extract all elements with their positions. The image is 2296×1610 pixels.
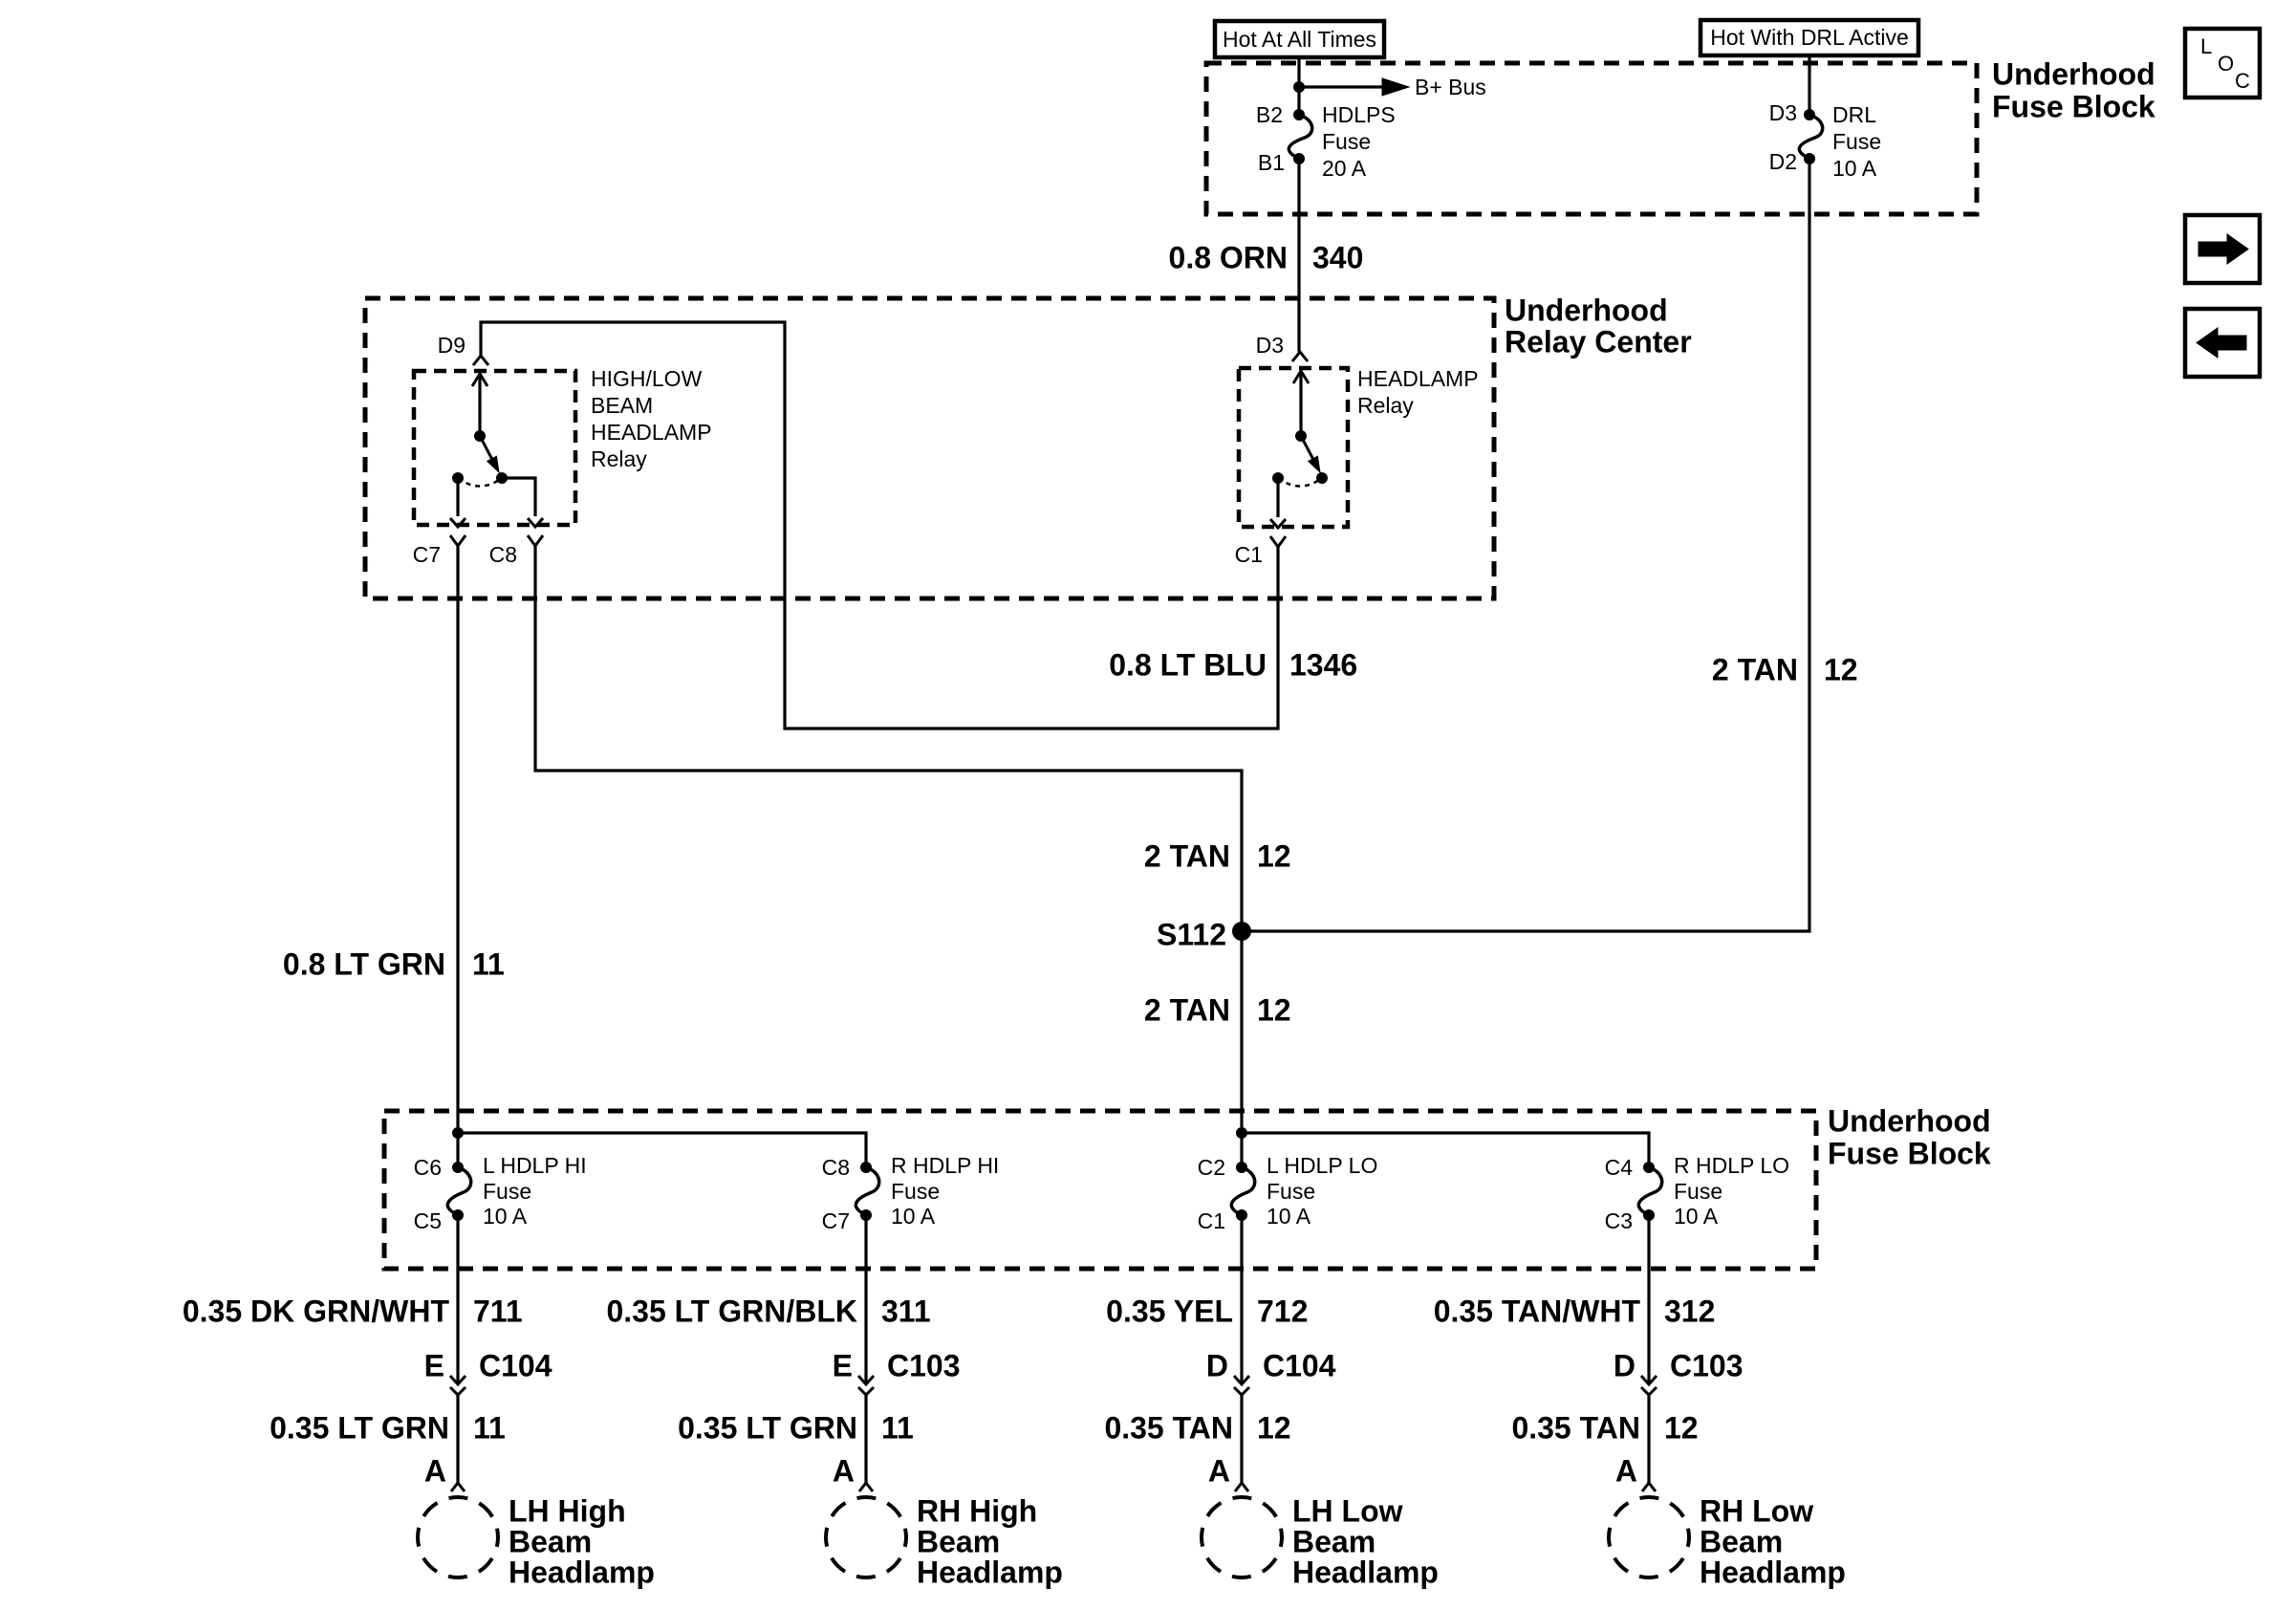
svg-text:Relay: Relay xyxy=(1357,393,1414,418)
svg-text:L: L xyxy=(2200,34,2212,58)
fuse DRL 10A xyxy=(1799,115,1822,159)
wire: C7 down to fuse block xyxy=(456,546,459,1167)
relay K1 coil arrow xyxy=(478,375,481,436)
svg-text:0.8 ORN: 0.8 ORN xyxy=(1169,240,1288,274)
svg-text:0.35 DK GRN/WHT: 0.35 DK GRN/WHT xyxy=(183,1294,450,1328)
svg-text:D3: D3 xyxy=(1769,100,1797,125)
svg-text:HDLPS: HDLPS xyxy=(1322,102,1396,127)
svg-text:312: 312 xyxy=(1664,1294,1715,1328)
svg-text:C1: C1 xyxy=(1198,1208,1225,1233)
svg-text:11: 11 xyxy=(473,1410,506,1445)
svg-text:10 A: 10 A xyxy=(1674,1204,1719,1229)
svg-text:A: A xyxy=(833,1453,855,1488)
connector fork at D9 xyxy=(473,356,488,365)
power label: Hot At All Times xyxy=(1215,21,1384,57)
lamp LH High Beam Headlamp (dashed circle) xyxy=(418,1497,498,1577)
svg-text:C7: C7 xyxy=(413,542,441,567)
svg-text:D9: D9 xyxy=(438,333,466,358)
svg-text:C5: C5 xyxy=(414,1208,442,1233)
svg-text:Hot With DRL Active: Hot With DRL Active xyxy=(1710,25,1908,50)
svg-text:0.35 TAN: 0.35 TAN xyxy=(1104,1410,1233,1445)
fuse L HDLP LO 10A xyxy=(1231,1167,1254,1215)
svg-text:D3: D3 xyxy=(1256,333,1284,358)
svg-text:Relay Center: Relay Center xyxy=(1505,324,1692,359)
svg-text:311: 311 xyxy=(881,1294,931,1328)
svg-text:L HDLP LO: L HDLP LO xyxy=(1267,1153,1377,1178)
splice S112 xyxy=(1232,922,1251,941)
svg-text:Relay: Relay xyxy=(591,446,647,471)
relay K1 movable arm xyxy=(480,436,492,459)
wire: rail to R HDLP LO fuse xyxy=(1242,1133,1649,1167)
connector fork at LH High headlamp xyxy=(451,1483,465,1491)
relay K2 common contact xyxy=(1316,472,1328,484)
svg-text:B1: B1 xyxy=(1258,150,1285,175)
relay K1 NC contact xyxy=(452,472,464,484)
svg-text:D: D xyxy=(1206,1348,1228,1382)
wire: 0.35 TAN/WHT circuit 312 down to connector xyxy=(1647,1215,1650,1384)
svg-text:Fuse: Fuse xyxy=(1322,129,1371,154)
svg-text:Beam: Beam xyxy=(1700,1524,1783,1558)
wire: 0.35 YEL circuit 712 down to connector xyxy=(1240,1215,1243,1384)
wire: S112 down to fuse block xyxy=(1240,931,1243,1167)
svg-text:711: 711 xyxy=(473,1294,523,1328)
svg-text:L HDLP HI: L HDLP HI xyxy=(483,1153,587,1178)
connector fork at LH Low headlamp xyxy=(1235,1483,1248,1491)
wire: relay feed rail from headlamp relay C1 to high/low relay D9 xyxy=(481,322,1278,729)
relay K1 contact throw arc xyxy=(458,478,502,487)
svg-text:0.8 LT BLU: 0.8 LT BLU xyxy=(1109,647,1267,682)
svg-text:10 A: 10 A xyxy=(1832,156,1877,181)
wire: K1 common to C8 xyxy=(502,478,535,516)
svg-text:2 TAN: 2 TAN xyxy=(1712,652,1798,686)
svg-text:R HDLP HI: R HDLP HI xyxy=(891,1153,999,1178)
wire: rail to R HDLP HI fuse xyxy=(458,1133,866,1167)
relay K2 NC contact xyxy=(1272,472,1284,484)
svg-text:S112: S112 xyxy=(1157,917,1226,951)
svg-text:LH Low: LH Low xyxy=(1292,1493,1403,1528)
svg-text:Fuse: Fuse xyxy=(1267,1179,1315,1204)
fuse R HDLP HI 10A xyxy=(856,1167,878,1215)
svg-text:Underhood: Underhood xyxy=(1505,293,1668,327)
svg-text:C3: C3 xyxy=(1605,1208,1633,1233)
wire: below connector C103 xyxy=(864,1395,867,1483)
svg-text:340: 340 xyxy=(1312,240,1363,274)
svg-text:Fuse: Fuse xyxy=(1832,129,1881,154)
Underhood Relay Center dashed box xyxy=(365,298,1494,598)
box: arrow left legend xyxy=(2185,309,2260,377)
svg-text:E: E xyxy=(833,1348,853,1382)
svg-text:12: 12 xyxy=(1824,652,1858,686)
svg-text:0.35 LT GRN/BLK: 0.35 LT GRN/BLK xyxy=(606,1294,857,1328)
wire: below connector C104 xyxy=(1240,1395,1243,1483)
wire: K1 NC to C7 xyxy=(456,478,459,516)
wire: 0.35 DK GRN/WHT circuit 711 down to connector xyxy=(456,1215,459,1384)
svg-text:Headlamp: Headlamp xyxy=(509,1555,655,1589)
svg-text:C2: C2 xyxy=(1198,1155,1225,1180)
power label: Hot With DRL Active xyxy=(1700,20,1918,55)
connector fork at relay D3 xyxy=(1292,352,1308,361)
Underhood Fuse Block (upper) dashed box xyxy=(1206,63,1977,214)
svg-text:BEAM: BEAM xyxy=(591,393,653,418)
svg-text:C: C xyxy=(2235,69,2250,93)
svg-text:Beam: Beam xyxy=(1292,1524,1375,1558)
svg-text:12: 12 xyxy=(1257,992,1291,1027)
relay K1 pivot xyxy=(474,430,486,442)
lamp RH Low Beam Headlamp (dashed circle) xyxy=(1609,1497,1689,1577)
svg-text:2 TAN: 2 TAN xyxy=(1144,838,1230,873)
svg-text:C4: C4 xyxy=(1605,1155,1634,1180)
connector fork at RH Low headlamp xyxy=(1642,1483,1656,1491)
node: B+ Bus tap junction xyxy=(1293,81,1305,93)
svg-text:A: A xyxy=(1615,1453,1637,1488)
svg-text:D2: D2 xyxy=(1769,149,1797,174)
svg-text:712: 712 xyxy=(1257,1294,1308,1328)
svg-text:20 A: 20 A xyxy=(1322,156,1367,181)
wire: 0.8 ORN 340 from B1 to headlamp relay D3 xyxy=(1297,159,1300,352)
svg-text:R HDLP LO: R HDLP LO xyxy=(1674,1153,1789,1178)
fuse R HDLP LO 10A xyxy=(1638,1167,1661,1215)
svg-text:0.35 TAN/WHT: 0.35 TAN/WHT xyxy=(1434,1294,1641,1328)
lamp LH Low Beam Headlamp (dashed circle) xyxy=(1202,1497,1282,1577)
svg-text:Hot At All Times: Hot At All Times xyxy=(1223,27,1376,52)
svg-text:C104: C104 xyxy=(1263,1348,1336,1382)
wire: below connector C104 xyxy=(456,1395,459,1483)
svg-text:HEADLAMP: HEADLAMP xyxy=(1357,366,1479,391)
svg-text:B+ Bus: B+ Bus xyxy=(1415,75,1486,99)
relay K2 coil arrow xyxy=(1299,372,1302,436)
svg-text:Underhood: Underhood xyxy=(1992,56,2155,91)
svg-text:LH High: LH High xyxy=(509,1493,626,1528)
connector fork C8 xyxy=(528,535,543,546)
svg-text:C1: C1 xyxy=(1235,542,1263,567)
svg-text:C103: C103 xyxy=(887,1348,961,1382)
svg-text:Underhood: Underhood xyxy=(1828,1103,1991,1138)
svg-text:DRL: DRL xyxy=(1832,102,1876,127)
relay K1 HIGH/LOW BEAM HEADLAMP Relay dashed box xyxy=(414,371,575,525)
svg-text:C103: C103 xyxy=(1670,1348,1744,1382)
wire: K2 NC to C1 xyxy=(1276,478,1279,517)
svg-text:C104: C104 xyxy=(479,1348,552,1382)
wire: DRL feed xyxy=(1808,54,1810,115)
svg-text:E: E xyxy=(424,1348,444,1382)
svg-text:B2: B2 xyxy=(1256,102,1283,127)
node: junction to R HDLP HI fuse xyxy=(452,1127,464,1139)
connector fork at RH High headlamp xyxy=(859,1483,873,1491)
svg-text:A: A xyxy=(1208,1453,1230,1488)
svg-text:12: 12 xyxy=(1257,1410,1291,1445)
svg-text:0.8 LT GRN: 0.8 LT GRN xyxy=(283,946,445,981)
wire: below connector C103 xyxy=(1647,1395,1650,1483)
svg-text:RH High: RH High xyxy=(917,1493,1037,1528)
relay K2 pivot xyxy=(1295,430,1307,442)
svg-text:10 A: 10 A xyxy=(483,1204,528,1229)
connector fork C7 xyxy=(450,535,466,546)
svg-text:Headlamp: Headlamp xyxy=(1292,1555,1439,1589)
node: junction to R HDLP LO fuse xyxy=(1236,1127,1247,1139)
connector fork C1 xyxy=(1270,536,1286,547)
box: arrow right legend xyxy=(2185,215,2260,283)
fuse L HDLP HI 10A xyxy=(447,1167,470,1215)
wire: B+ Bus arrow xyxy=(1299,85,1382,88)
svg-text:11: 11 xyxy=(881,1410,914,1445)
relay K2 HEADLAMP Relay dashed box xyxy=(1239,368,1348,527)
svg-text:Fuse Block: Fuse Block xyxy=(1828,1136,1991,1170)
Underhood Fuse Block (lower) dashed box xyxy=(384,1111,1816,1269)
relay K1 common contact xyxy=(496,472,508,484)
svg-text:HIGH/LOW: HIGH/LOW xyxy=(591,366,703,391)
svg-text:11: 11 xyxy=(472,946,505,981)
relay K2 movable arm xyxy=(1301,436,1313,459)
svg-text:Fuse: Fuse xyxy=(891,1179,940,1204)
svg-text:Fuse: Fuse xyxy=(1674,1179,1722,1204)
box: LOC legend xyxy=(2185,29,2260,98)
svg-text:0.35 LT GRN: 0.35 LT GRN xyxy=(270,1410,449,1445)
svg-text:A: A xyxy=(424,1453,446,1488)
svg-text:C8: C8 xyxy=(489,542,517,567)
svg-text:Beam: Beam xyxy=(509,1524,592,1558)
svg-text:12: 12 xyxy=(1664,1410,1699,1445)
wire: C8 down and over to S112 xyxy=(535,546,1242,931)
svg-text:C7: C7 xyxy=(822,1208,850,1233)
svg-text:10 A: 10 A xyxy=(1267,1204,1311,1229)
svg-text:C8: C8 xyxy=(822,1155,850,1180)
wire: DRL D2 down to S112 xyxy=(1242,159,1809,931)
svg-text:O: O xyxy=(2218,52,2234,76)
svg-text:12: 12 xyxy=(1257,838,1291,873)
svg-text:0.35 LT GRN: 0.35 LT GRN xyxy=(678,1410,857,1445)
svg-text:HEADLAMP: HEADLAMP xyxy=(591,420,712,445)
svg-text:Beam: Beam xyxy=(917,1524,1000,1558)
wire: battery feed into HDLPS fuse xyxy=(1297,57,1300,115)
wire: 0.35 LT GRN/BLK circuit 311 down to connector xyxy=(864,1215,867,1384)
fuse HDLPS 20A xyxy=(1289,115,1311,159)
svg-text:RH Low: RH Low xyxy=(1700,1493,1813,1528)
svg-text:Headlamp: Headlamp xyxy=(917,1555,1063,1589)
svg-text:1346: 1346 xyxy=(1289,647,1357,682)
svg-text:Headlamp: Headlamp xyxy=(1700,1555,1846,1589)
svg-text:10 A: 10 A xyxy=(891,1204,936,1229)
svg-text:0.35 YEL: 0.35 YEL xyxy=(1106,1294,1233,1328)
svg-text:D: D xyxy=(1614,1348,1635,1382)
relay K2 contact throw arc xyxy=(1278,478,1322,487)
svg-text:0.35 TAN: 0.35 TAN xyxy=(1511,1410,1640,1445)
svg-text:2 TAN: 2 TAN xyxy=(1144,992,1230,1027)
svg-text:Fuse Block: Fuse Block xyxy=(1992,89,2155,123)
lamp RH High Beam Headlamp (dashed circle) xyxy=(826,1497,906,1577)
svg-text:Fuse: Fuse xyxy=(483,1179,531,1204)
svg-text:C6: C6 xyxy=(414,1155,442,1180)
